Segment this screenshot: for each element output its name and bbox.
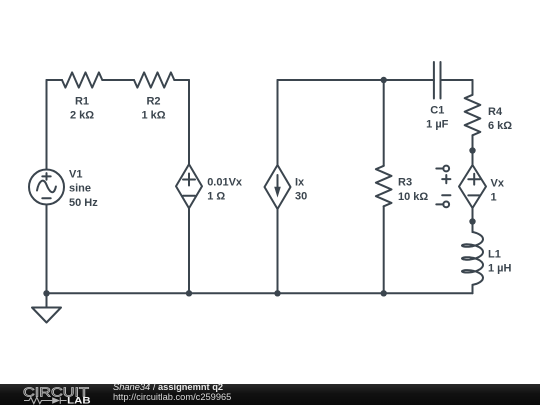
dependent source Vx bbox=[459, 165, 486, 208]
svg-text:6 kΩ: 6 kΩ bbox=[488, 120, 512, 132]
footer meta text bbox=[113, 383, 231, 402]
svg-text:R3: R3 bbox=[398, 177, 412, 189]
resistor R1 bbox=[62, 72, 102, 87]
svg-text:R2: R2 bbox=[146, 96, 160, 108]
wire bbox=[47, 79, 63, 81]
wire bbox=[472, 285, 474, 293]
svg-text:50 Hz: 50 Hz bbox=[69, 197, 98, 209]
capacitor C1 bbox=[434, 62, 441, 99]
node Vx bottom bbox=[469, 218, 475, 224]
svg-text:10 kΩ: 10 kΩ bbox=[398, 191, 428, 203]
voltage source V1 bbox=[29, 170, 64, 205]
wire bbox=[188, 80, 190, 164]
wire bbox=[472, 135, 474, 164]
svg-text:0.01Vx: 0.01Vx bbox=[207, 176, 243, 188]
logo CIRCUIT LAB bbox=[0, 384, 110, 405]
wire bbox=[441, 79, 473, 81]
svg-text:L1: L1 bbox=[488, 249, 501, 261]
svg-text:C1: C1 bbox=[430, 105, 444, 117]
dependent source 0.01Vx bbox=[176, 164, 202, 208]
wire bbox=[188, 208, 190, 293]
node b1 bbox=[186, 290, 192, 296]
svg-text:R4: R4 bbox=[488, 106, 503, 118]
svg-text:Ix: Ix bbox=[295, 176, 305, 188]
probe terminal - bbox=[442, 194, 450, 196]
svg-text:1: 1 bbox=[491, 192, 497, 204]
svg-text:2 kΩ: 2 kΩ bbox=[70, 109, 94, 121]
svg-text:R1: R1 bbox=[75, 96, 89, 108]
svg-text:1 µH: 1 µH bbox=[488, 263, 512, 275]
svg-text:1 µF: 1 µF bbox=[426, 119, 449, 131]
node top R3 bbox=[381, 77, 387, 83]
wire bbox=[102, 79, 134, 81]
wire top rail middle bbox=[278, 79, 434, 81]
svg-text:V1: V1 bbox=[69, 168, 82, 180]
wire bbox=[472, 80, 474, 95]
wire bbox=[383, 80, 385, 166]
svg-text:Vx: Vx bbox=[491, 178, 505, 190]
svg-text:1 Ω: 1 Ω bbox=[207, 190, 225, 202]
wire bbox=[277, 80, 279, 165]
svg-text:LAB: LAB bbox=[67, 396, 91, 405]
wire bbox=[383, 206, 385, 293]
svg-text:sine: sine bbox=[69, 183, 91, 195]
node Vx top bbox=[469, 147, 475, 153]
wire bottom rail bbox=[47, 292, 473, 294]
wire bbox=[174, 79, 189, 81]
wire bbox=[46, 205, 48, 294]
svg-text:1 kΩ: 1 kΩ bbox=[141, 109, 165, 121]
resistor R3 bbox=[376, 166, 392, 207]
ground bbox=[46, 293, 48, 307]
node gnd bbox=[43, 290, 49, 296]
wire bbox=[46, 80, 48, 170]
wire bbox=[277, 209, 279, 293]
node b2 bbox=[274, 290, 280, 296]
node b3 bbox=[381, 290, 387, 296]
current source Ix bbox=[265, 165, 291, 209]
resistor R2 bbox=[134, 72, 174, 87]
wire bbox=[472, 208, 474, 232]
resistor R4 bbox=[465, 95, 481, 136]
inductor L1 bbox=[462, 232, 483, 285]
probe terminal + bbox=[436, 168, 443, 170]
svg-text:30: 30 bbox=[295, 191, 307, 203]
